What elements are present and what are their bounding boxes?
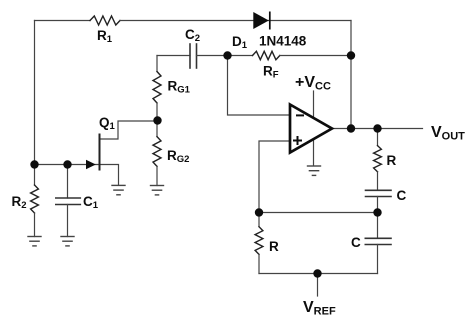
node dot RF right <box>347 51 355 59</box>
wire left rail <box>34 21 36 165</box>
resistor RG1 <box>153 72 161 104</box>
svg-text:C: C <box>397 188 407 203</box>
wire R2 to ground <box>34 213 36 237</box>
resistor R mid <box>255 227 263 255</box>
wire C1 to ground <box>67 205 69 237</box>
wire C right to mid node <box>377 197 379 213</box>
node dot mid left <box>255 208 263 216</box>
resistor R1 <box>90 16 120 25</box>
wire inverting input <box>228 56 291 116</box>
wire mid node to C mid <box>377 213 379 239</box>
diode D1 <box>253 12 269 30</box>
wire R1 to D1 <box>120 20 254 22</box>
ground RG2 <box>150 186 164 195</box>
ground Q1 source <box>111 185 125 194</box>
svg-text:R: R <box>387 153 397 168</box>
resistor RG2 <box>153 137 161 167</box>
wire top from rail to R1 <box>35 20 91 22</box>
node dot Vref <box>313 269 321 277</box>
node dot C1 top <box>63 160 71 168</box>
capacitor C1 <box>56 198 81 205</box>
capacitor C right <box>366 190 392 196</box>
resistor RF <box>253 51 280 59</box>
wire drain <box>100 121 158 139</box>
wire RG1 to node <box>156 103 158 121</box>
resistor R2 <box>31 185 39 213</box>
wire C mid to bottom <box>377 245 379 274</box>
wire R2 top lead <box>34 165 36 186</box>
wire Vcc stub <box>313 91 315 117</box>
wire R to C right <box>377 172 379 191</box>
wire RF to output node <box>280 55 351 57</box>
capacitor C mid <box>365 238 391 244</box>
svg-text:C: C <box>351 235 361 250</box>
node dot mid right <box>373 208 381 216</box>
wire right drop to output node <box>350 21 352 129</box>
ground op-amp <box>307 166 321 175</box>
wire C2 to node <box>197 55 228 57</box>
wire RG2 to ground <box>156 166 158 185</box>
wire gate <box>35 164 100 166</box>
node dot right branch <box>373 124 381 132</box>
wire node to RF <box>228 55 253 57</box>
wire op-amp ground stub <box>313 140 315 166</box>
ground C1 <box>60 237 74 246</box>
wire bottom horizontal <box>259 273 378 275</box>
ground R2 <box>27 237 41 246</box>
wire RG2 top lead <box>156 121 158 137</box>
transistor Q1 <box>86 134 100 171</box>
svg-text:1N4148: 1N4148 <box>259 34 307 49</box>
capacitor C2 <box>190 44 197 68</box>
node dot rail-gate <box>30 160 38 168</box>
wire R left mid top lead <box>258 213 260 227</box>
wire noninverting input <box>259 141 290 213</box>
resistor R right <box>374 146 382 172</box>
wire C2 left lead <box>157 55 190 57</box>
svg-text:R: R <box>269 239 279 254</box>
node dot output <box>347 124 355 132</box>
node dot RG junction <box>153 116 161 124</box>
wire R mid to bottom <box>258 254 260 273</box>
wire source <box>100 165 119 186</box>
wire right branch top lead <box>377 129 379 146</box>
wire RG1 top lead <box>156 56 158 72</box>
wire mid horizontal <box>259 212 378 214</box>
wire D1 to right corner <box>268 20 351 22</box>
node dot RF left <box>223 51 231 59</box>
op-amp U1 <box>290 105 332 153</box>
wire C1 top lead <box>67 165 69 199</box>
wire output <box>332 128 423 130</box>
wire Vref stub <box>317 274 319 297</box>
